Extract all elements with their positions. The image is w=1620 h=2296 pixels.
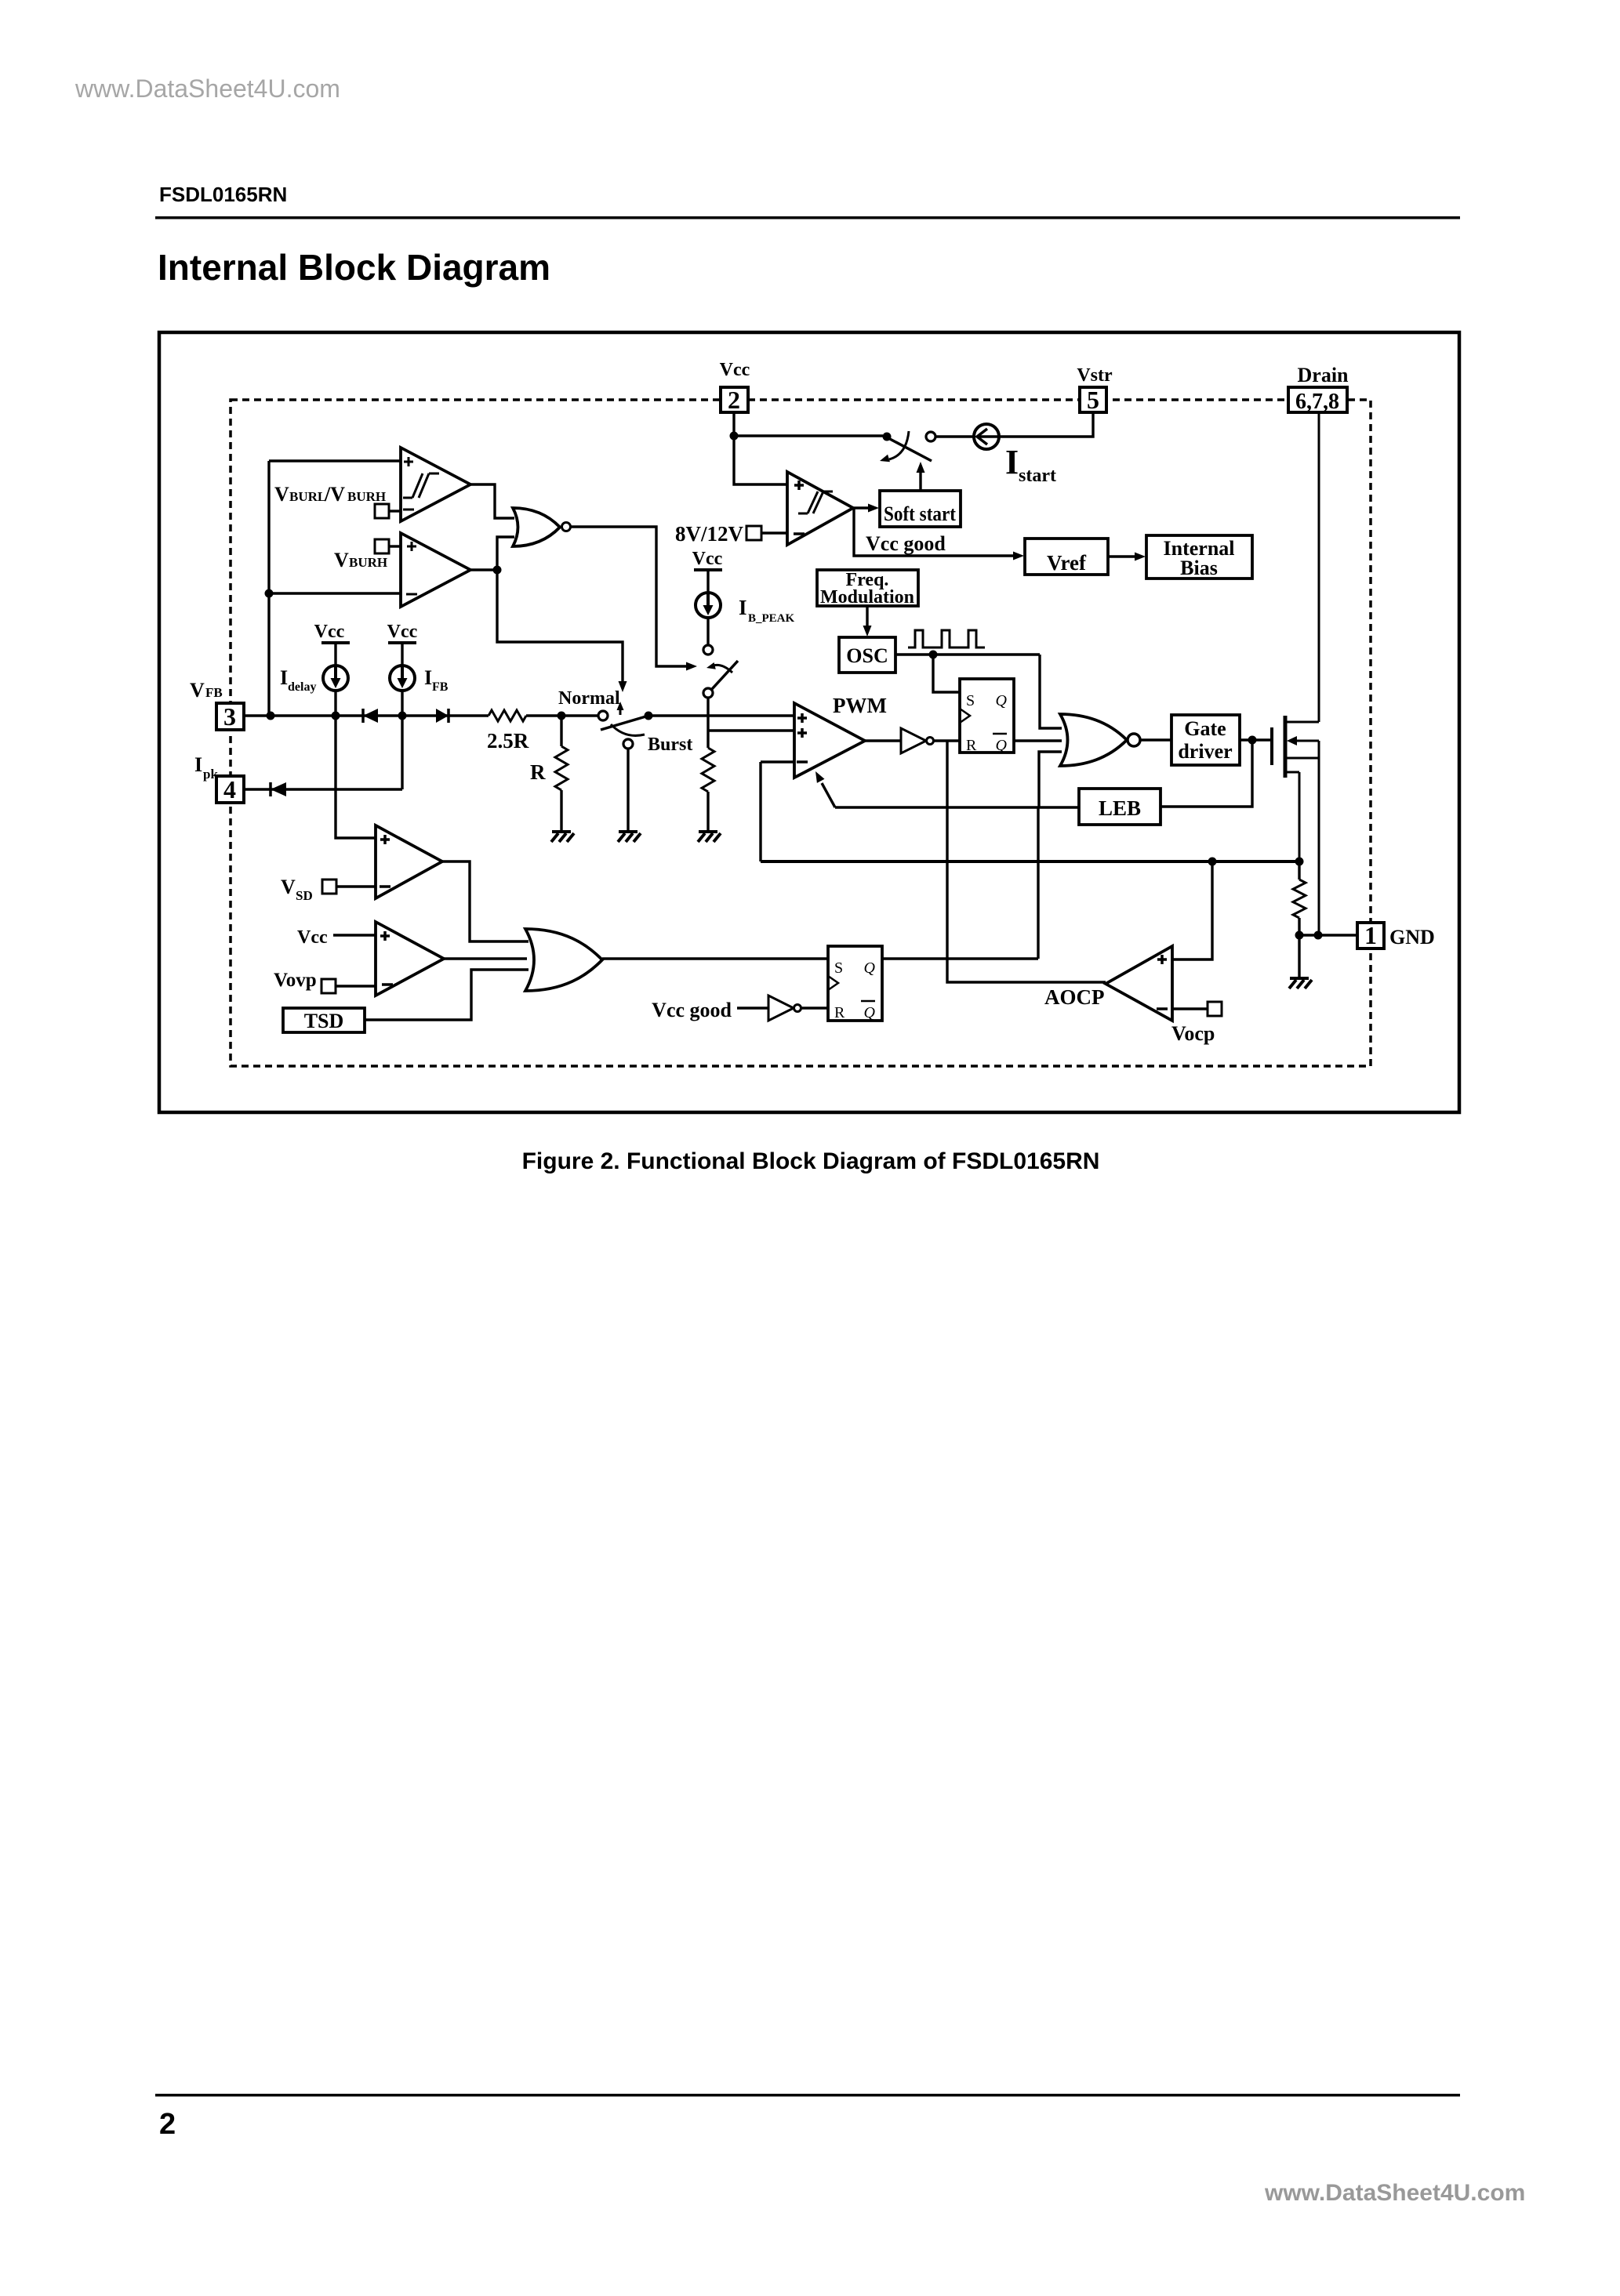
watermark top (74, 74, 340, 103)
svg-text:pk: pk (203, 767, 218, 782)
inverter G4 (768, 996, 801, 1021)
svg-text:Vstr: Vstr (1077, 365, 1113, 386)
title (158, 247, 550, 288)
label VSD (281, 876, 313, 903)
wire Vovp pad to U7 - input (336, 985, 376, 987)
wire Vcc rail to Idelay (334, 643, 336, 666)
label Vcc (Idelay) (314, 622, 345, 642)
node OSC output junction (929, 651, 938, 659)
wire FF2 Q up to LEB line (1037, 807, 1039, 959)
wire VBURL/VBURH sense vertical (267, 461, 270, 716)
label Vovp (274, 970, 317, 991)
Vcc rail (Idelay) (321, 641, 350, 644)
current source IFB (390, 666, 415, 691)
wire PWM out to inverter (865, 739, 901, 742)
caption (522, 1148, 1100, 1174)
svg-text:start: start (1019, 466, 1056, 486)
svg-text:V: V (334, 549, 349, 571)
svg-text:V: V (274, 483, 289, 506)
header rule (155, 216, 1460, 219)
svg-text:5: 5 (1087, 386, 1099, 414)
Vcc rail (IFB) (388, 641, 416, 644)
svg-text:FB: FB (432, 680, 449, 694)
wire AOCP output to FF1 R (947, 741, 1106, 982)
switch SW1 motion arc (880, 431, 909, 462)
node gate node (1248, 736, 1257, 745)
ground (Burst) (618, 832, 641, 842)
node U2 output junction (493, 566, 502, 575)
switch SW1 open contact (926, 432, 935, 441)
svg-text:/V: /V (324, 483, 345, 506)
label IFB (424, 666, 449, 694)
wire Vcc good to Vref (854, 508, 1024, 560)
svg-text:Vcc: Vcc (387, 622, 418, 642)
wire VBURL comparator + input (269, 459, 401, 462)
wire U1 pad to - input (389, 510, 401, 512)
pin 6,7,8 Drain (1288, 364, 1349, 414)
label Istart (1005, 443, 1056, 486)
wire IB_PEAK resistor to ground (706, 792, 709, 832)
svg-text:Normal: Normal (558, 688, 620, 709)
svg-text:Q: Q (996, 737, 1008, 754)
svg-text:Vcc good: Vcc good (866, 532, 946, 555)
svg-text:OSC: OSC (846, 644, 888, 667)
wire NOR2 output to Gate driver (1140, 738, 1171, 741)
svg-text:Soft start: Soft start (884, 502, 956, 525)
pad 8V/12V (746, 526, 761, 540)
label Vcc (U7) (297, 927, 328, 948)
wire VSD pad to - input (336, 885, 376, 887)
svg-text:TSD: TSD (304, 1010, 344, 1032)
node FB junction A (267, 712, 275, 720)
svg-text:www.DataSheet4U.com: www.DataSheet4U.com (1264, 2180, 1525, 2206)
node ground rail junction B (1314, 931, 1323, 940)
label Vcc good (top) (866, 532, 946, 555)
svg-text:S: S (966, 692, 975, 709)
wire Freq Modulation to OSC (arrow) (863, 606, 872, 637)
wire FB node to Normal contact (526, 714, 598, 716)
current source Istart (974, 424, 999, 449)
svg-text:I: I (424, 666, 432, 689)
wire IB_PEAK to switch contact (706, 618, 709, 645)
wire Vcc good label to inverter G4 (737, 1007, 768, 1009)
resistor IB_PEAK leg (702, 748, 714, 792)
block Vref (1025, 539, 1108, 575)
block LEB (1079, 789, 1161, 825)
diode D2 (436, 709, 449, 723)
svg-text:FB: FB (205, 685, 223, 700)
switch SW2 motion arc (706, 662, 732, 673)
svg-text:Q: Q (864, 1004, 876, 1021)
svg-text:Modulation: Modulation (820, 587, 914, 608)
comparator U6 VSD (376, 825, 442, 898)
svg-text:Vovp: Vovp (274, 970, 317, 991)
pad VBURH (375, 539, 389, 553)
transistor Q1 SenseFET (1272, 412, 1319, 935)
wire inverter to FF1 R (934, 739, 960, 742)
node FB junction B (332, 712, 340, 720)
svg-text:R: R (966, 737, 977, 754)
label VBURL/VBURH (274, 483, 386, 506)
wire sense to AOCP + input (1172, 861, 1212, 959)
svg-text:I: I (280, 666, 288, 689)
clock waveform (908, 630, 985, 647)
wire switch to PWM + input (648, 714, 794, 716)
wire PWM - input to sense line (761, 762, 794, 861)
wire U7 output to OR gate (444, 957, 527, 959)
wire 8V/12V pad to UVLO - input (761, 531, 787, 534)
flip-flop FF2 (828, 946, 882, 1021)
wire NOR1 output to burst switch (arrow right) (569, 527, 697, 671)
resistor R (555, 746, 568, 790)
svg-text:R: R (530, 760, 546, 784)
wire pin3 main feedback (244, 714, 489, 716)
pad VBURL (375, 504, 389, 518)
svg-text:Q: Q (864, 959, 876, 977)
label Ipk (194, 753, 218, 782)
wire LEB line (835, 806, 1079, 808)
label 2.5R (487, 729, 529, 753)
label VBURH (334, 549, 387, 571)
block Gate driver (1171, 715, 1240, 765)
wire Burst contact to ground (627, 749, 629, 832)
wire burst switch down (706, 698, 709, 748)
comparator U3 UVLO (787, 472, 853, 545)
wire pin4 Ipk (244, 788, 402, 790)
pad Vovp (321, 979, 336, 993)
NOR gate G3 (1060, 714, 1140, 766)
ground (IB_PEAK) (698, 832, 721, 842)
footer rule (155, 2094, 1460, 2097)
pin 2 Vcc (720, 360, 750, 414)
node SW3 pivot (645, 712, 653, 720)
node FB junction C (398, 712, 407, 720)
wire sense resistor top (1298, 861, 1300, 880)
comparator U1 VBURL/VBURH (hysteresis) (401, 448, 470, 521)
watermark bottom (1264, 2180, 1525, 2206)
svg-text:BURH: BURH (347, 489, 386, 504)
comparator U5 AOCP (1106, 946, 1172, 1021)
node SW1 pivot (883, 433, 892, 441)
wire Idelay to FB node (334, 691, 336, 716)
label 8V/12V (675, 522, 744, 546)
wire IFB to FB node (401, 691, 403, 716)
page number (159, 2108, 176, 2141)
svg-text:V: V (281, 876, 296, 898)
wire Vref to Internal Bias (1108, 553, 1146, 561)
svg-text:AOCP: AOCP (1044, 985, 1105, 1009)
wire U2 pad to + input (389, 545, 401, 547)
comparator U4 PWM (794, 703, 865, 778)
svg-text:Vref: Vref (1047, 551, 1087, 575)
node sense junction B (1295, 858, 1304, 866)
svg-text:www.DataSheet4U.com: www.DataSheet4U.com (74, 74, 340, 103)
wire Vcc label to U7 + input (333, 934, 376, 936)
OR gate G5 (525, 929, 602, 991)
svg-text:I: I (739, 596, 747, 619)
pad Vocp (1208, 1002, 1222, 1016)
wire IB_PEAK node to PWM + input 2 (708, 729, 794, 731)
current source Idelay (323, 666, 348, 691)
switch SW1 startup (blade) (888, 438, 932, 461)
wire Istart to Vstr pin (999, 412, 1093, 437)
label IB_PEAK (739, 596, 795, 625)
wire TSD to OR gate (365, 970, 528, 1020)
block OSC (839, 637, 895, 673)
wire pin2 Vcc vertical to UVLO + input (734, 412, 787, 484)
svg-text:Vocp: Vocp (1171, 1022, 1215, 1045)
diode D1 (363, 709, 378, 723)
wire U1 output to NOR1 (470, 484, 514, 518)
comparator U7 Vcc/Vovp (376, 922, 444, 996)
wire R divider top (560, 716, 562, 746)
svg-text:Burst: Burst (648, 735, 692, 755)
node Vcc junction (730, 432, 739, 441)
IC boundary (dashed) (231, 400, 1371, 1066)
svg-text:Vcc: Vcc (297, 927, 328, 948)
label R (530, 760, 546, 784)
svg-text:B_PEAK: B_PEAK (748, 612, 795, 625)
wire VBURH comparator - input (269, 592, 401, 594)
wire LEB arrow to PWM - input (815, 771, 835, 807)
svg-text:8V/12V: 8V/12V (675, 522, 744, 546)
switch SW3 motion arc (611, 724, 645, 735)
svg-text:Vcc good: Vcc good (652, 999, 732, 1021)
wire FF2 Q output (882, 957, 1038, 959)
wire NOR2 bottom input (1039, 752, 1062, 807)
svg-text:1: 1 (1364, 921, 1377, 949)
ground (R divider) (551, 832, 574, 842)
figure frame (159, 332, 1459, 1112)
svg-text:FSDL0165RN: FSDL0165RN (159, 183, 287, 206)
wire OSC to NOR gate top input (1040, 655, 1062, 728)
svg-text:S: S (834, 959, 843, 977)
switch SW2 blade (712, 661, 738, 689)
Vcc rail (IB_PEAK) (694, 568, 722, 571)
wire Vcc rail to IB_PEAK (706, 570, 709, 593)
wire LEB input from gate node (1161, 740, 1252, 807)
svg-text:Q: Q (996, 692, 1008, 709)
svg-text:4: 4 (223, 775, 236, 803)
comparator U2 VBURH (401, 533, 470, 607)
svg-text:Figure 2. Functional Block Dia: Figure 2. Functional Block Diagram of FS… (522, 1148, 1100, 1174)
svg-text:Vcc: Vcc (720, 360, 750, 380)
label Vcc (IB_PEAK) (692, 549, 723, 569)
wire OSC output (895, 653, 1040, 655)
svg-text:LEB: LEB (1099, 796, 1141, 820)
switch SW3 Normal contact (598, 711, 608, 720)
svg-text:Gate: Gate (1184, 717, 1226, 740)
svg-text:V: V (190, 679, 205, 702)
wire U2 output to NOR1 (470, 537, 514, 570)
label AOCP (1044, 985, 1105, 1009)
pin 4 Ipk (216, 775, 244, 803)
svg-text:Vcc: Vcc (692, 549, 723, 569)
wire startup switch to Istart (935, 435, 974, 437)
label Idelay (280, 666, 316, 694)
resistor 2.5R (489, 710, 526, 721)
resistor Rsense (1293, 880, 1306, 918)
svg-text:6,7,8: 6,7,8 (1295, 390, 1339, 414)
flip-flop FF1 (960, 679, 1014, 754)
current source IB_PEAK (696, 593, 721, 618)
wire VSD output to OR gate (442, 861, 528, 941)
inverter G2 (901, 728, 934, 753)
node sense junction A (1208, 858, 1217, 866)
wire source ground rail (1299, 934, 1357, 936)
node VBURH - branch (265, 589, 274, 598)
wire U2 output to Normal switch (arrow down) (497, 570, 627, 692)
label Vcc good (bottom) (652, 999, 732, 1021)
header part number (159, 183, 287, 206)
svg-text:PWM: PWM (833, 694, 887, 717)
svg-text:I: I (1005, 443, 1019, 481)
wire UVLO output to Soft start (853, 504, 879, 513)
wire inverter G4 to FF2 R (801, 1007, 828, 1009)
wire FF1 Qbar to NOR2 (1014, 739, 1062, 742)
block Internal Bias (1146, 535, 1252, 579)
svg-text:R: R (834, 1004, 845, 1021)
label VFB (190, 679, 223, 702)
wire Soft start to switch (arrow up) (917, 462, 925, 491)
svg-text:driver: driver (1178, 740, 1232, 763)
svg-text:2: 2 (728, 386, 740, 414)
pad VSD (322, 880, 336, 894)
wire R divider to ground (560, 790, 562, 832)
block TSD (283, 1008, 365, 1032)
pin 3 VFB (216, 702, 244, 731)
switch SW3 up arrow (617, 702, 624, 715)
wire AOCP - input to Vocp pad (1172, 1007, 1208, 1010)
svg-text:2: 2 (159, 2108, 176, 2141)
wire Vcc to startup switch (734, 434, 883, 437)
svg-text:BURH: BURH (349, 555, 387, 570)
svg-text:GND: GND (1389, 926, 1435, 949)
switch SW3 Burst contact (623, 739, 633, 749)
wire Vcc rail to IFB (401, 643, 403, 666)
wire IFB node down to pin4 wire (401, 716, 403, 789)
pin 1 GND (1357, 921, 1435, 949)
label Vcc (IFB) (387, 622, 418, 642)
diode D3 (271, 782, 286, 796)
svg-text:BURL: BURL (289, 489, 326, 504)
node FB junction D (divider) (558, 712, 566, 720)
node ground rail junction A (1295, 931, 1304, 940)
label PWM (833, 694, 887, 717)
svg-text:delay: delay (288, 680, 316, 694)
NOR gate G1 (513, 508, 571, 546)
wire FB node to VSD + input (336, 716, 376, 838)
wire ground stub (1298, 935, 1300, 978)
label Vocp (1171, 1022, 1215, 1045)
pin 5 Vstr (1077, 365, 1113, 414)
svg-text:Drain: Drain (1298, 364, 1349, 386)
wire OSC to FF1 S input (933, 655, 960, 692)
wire Gate driver to MOSFET gate (1240, 738, 1272, 741)
svg-text:Internal Block Diagram: Internal Block Diagram (158, 247, 550, 288)
svg-text:2.5R: 2.5R (487, 729, 529, 753)
block Soft start (880, 491, 961, 527)
label Burst (648, 735, 692, 755)
svg-text:Bias: Bias (1180, 557, 1218, 579)
switch SW3 blade (601, 716, 648, 730)
svg-text:SD: SD (296, 888, 313, 903)
ground (source) (1289, 978, 1312, 988)
label Normal (558, 688, 620, 709)
wire sense line (761, 860, 1299, 863)
wire sense resistor bottom (1298, 918, 1300, 935)
svg-text:I: I (194, 753, 202, 776)
block Freq. Modulation (817, 570, 918, 608)
svg-text:Vcc: Vcc (314, 622, 345, 642)
wire OR gate to FF2 S (602, 957, 828, 959)
switch SW2 burst contacts (703, 645, 713, 698)
svg-text:3: 3 (223, 702, 236, 731)
